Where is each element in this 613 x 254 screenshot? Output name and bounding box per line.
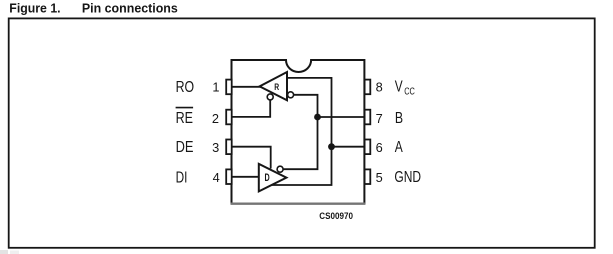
svg-text:CS00970: CS00970 <box>319 211 353 221</box>
junction node A <box>328 143 335 150</box>
svg-text:Figure 1.: Figure 1. <box>9 1 60 16</box>
pin 4 stub <box>226 169 232 184</box>
receiver U1A triangle R <box>260 72 287 100</box>
svg-text:D: D <box>265 172 270 184</box>
svg-text:RO: RO <box>176 79 195 96</box>
svg-text:5: 5 <box>376 170 383 185</box>
svg-text:4: 4 <box>213 170 220 185</box>
svg-text:V: V <box>395 79 403 96</box>
svg-text:B: B <box>395 110 403 127</box>
wire net B: receiver bubble, pin 7, driver bubble <box>283 95 317 169</box>
pin 8 stub <box>365 80 371 95</box>
wire branch to pin 7 <box>318 116 365 118</box>
svg-text:GND: GND <box>394 169 421 186</box>
pin 5 stub <box>365 169 371 184</box>
pin 1 stub <box>226 80 232 95</box>
IC body U1 (8-pin package with notch) <box>232 60 365 205</box>
svg-text:6: 6 <box>376 140 383 155</box>
svg-text:CC: CC <box>404 87 415 98</box>
wire branch to pin 6 <box>332 146 365 148</box>
faint logo smudge bottom-left <box>0 250 19 254</box>
wire DI: pin4 to driver input <box>232 176 259 178</box>
svg-text:A: A <box>395 139 404 156</box>
svg-text:Pin connections: Pin connections <box>82 1 178 16</box>
bubble on receiver B input <box>288 92 294 98</box>
svg-text:RE: RE <box>176 110 193 127</box>
IC bottom edge (faded) <box>231 202 366 204</box>
pin 7 stub <box>365 110 371 125</box>
driver U1B triangle D <box>259 164 287 192</box>
wire RE: pin2 to receiver enable bubble <box>232 100 271 117</box>
pin 3 stub <box>226 140 232 155</box>
svg-text:DI: DI <box>176 169 188 186</box>
bubble on receiver enable (RE) <box>267 94 273 100</box>
svg-text:8: 8 <box>376 80 383 95</box>
wire net A: receiver input, pin 6, driver output <box>271 78 332 185</box>
wire DE: pin3 to driver enable <box>232 147 271 169</box>
bubble on driver inverting output <box>277 166 283 172</box>
wire pin1 RO to receiver output <box>232 86 262 88</box>
junction node B <box>314 114 321 121</box>
svg-text:7: 7 <box>376 111 383 126</box>
svg-text:1: 1 <box>212 80 219 95</box>
svg-text:2: 2 <box>212 111 219 126</box>
svg-text:DE: DE <box>176 139 194 156</box>
svg-text:3: 3 <box>212 140 219 155</box>
pin 2 stub <box>226 110 232 125</box>
svg-text:R: R <box>274 82 279 92</box>
label VCC <box>395 79 415 98</box>
pin 6 stub <box>365 140 371 155</box>
